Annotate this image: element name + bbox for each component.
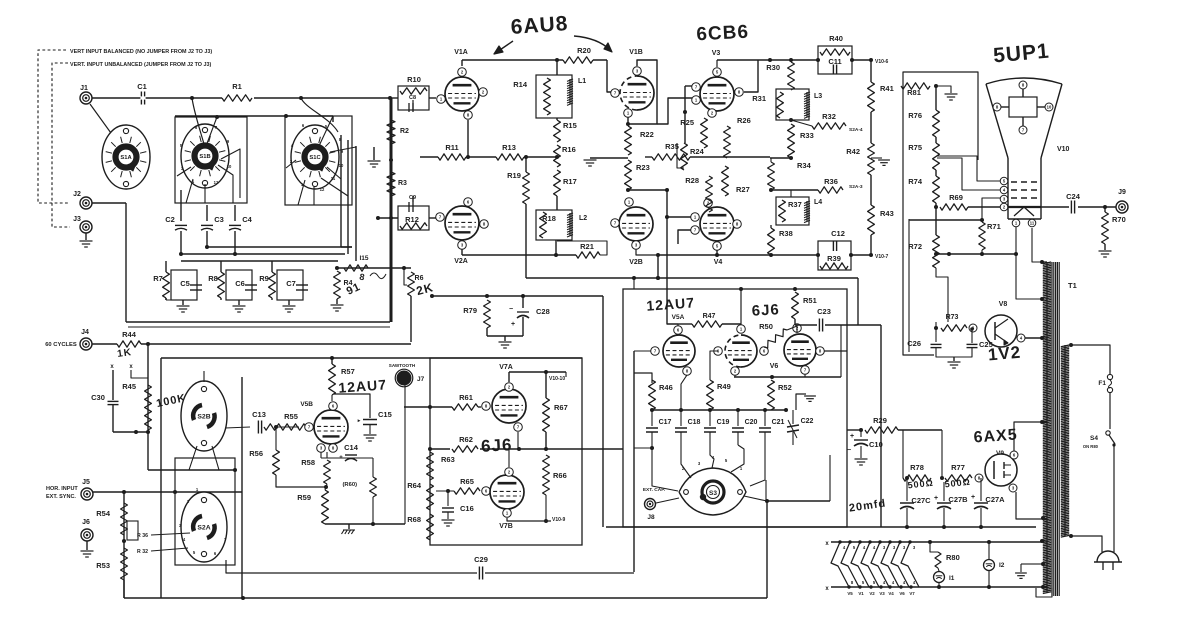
svg-text:S3: S3 xyxy=(709,490,717,497)
svg-text:R62: R62 xyxy=(459,435,473,444)
svg-text:S1A: S1A xyxy=(120,155,132,161)
svg-text:C6: C6 xyxy=(235,279,245,288)
svg-text:S1B: S1B xyxy=(199,154,210,160)
svg-text:+: + xyxy=(511,321,515,328)
svg-text:R51: R51 xyxy=(803,296,817,305)
svg-text:R69: R69 xyxy=(949,193,963,202)
svg-text:V8: V8 xyxy=(999,301,1008,308)
svg-text:C1: C1 xyxy=(137,82,147,91)
svg-text:C19: C19 xyxy=(717,419,730,426)
svg-text:12AU7: 12AU7 xyxy=(646,294,696,313)
svg-text:L4: L4 xyxy=(814,199,822,206)
svg-text:12AU7: 12AU7 xyxy=(338,376,388,395)
svg-text:V7B: V7B xyxy=(499,523,513,530)
svg-text:R61: R61 xyxy=(459,393,473,402)
svg-text:R37: R37 xyxy=(788,200,802,209)
svg-text:R6: R6 xyxy=(415,275,424,282)
svg-text:C3: C3 xyxy=(214,215,224,224)
svg-text:−: − xyxy=(847,447,851,454)
svg-text:R16: R16 xyxy=(562,145,576,154)
svg-text:R80: R80 xyxy=(946,553,960,562)
svg-text:SAWTOOTH: SAWTOOTH xyxy=(389,363,416,368)
svg-text:R77: R77 xyxy=(951,463,965,472)
svg-text:J2: J2 xyxy=(73,191,81,198)
svg-text:R20: R20 xyxy=(577,46,591,55)
svg-text:C30: C30 xyxy=(91,393,105,402)
svg-text:V2A: V2A xyxy=(454,258,468,265)
svg-text:R15: R15 xyxy=(563,121,577,130)
svg-text:EXT. SYNC.: EXT. SYNC. xyxy=(46,494,76,500)
svg-text:C5: C5 xyxy=(180,279,190,288)
svg-text:+: + xyxy=(339,455,343,461)
svg-text:R72: R72 xyxy=(908,242,922,251)
svg-text:R24: R24 xyxy=(690,147,705,156)
svg-text:C27C: C27C xyxy=(911,496,931,505)
svg-text:R59: R59 xyxy=(297,493,311,502)
svg-text:L2: L2 xyxy=(579,215,587,222)
svg-text:(R60): (R60) xyxy=(343,482,358,488)
svg-text:R25: R25 xyxy=(680,118,694,127)
svg-text:R27: R27 xyxy=(736,185,750,194)
svg-text:R34: R34 xyxy=(797,161,812,170)
svg-text:V1: V1 xyxy=(858,591,864,596)
svg-text:R63: R63 xyxy=(441,455,455,464)
svg-text:12: 12 xyxy=(320,187,325,192)
svg-text:R81: R81 xyxy=(907,88,921,97)
svg-text:R42: R42 xyxy=(846,147,860,156)
svg-text:I1: I1 xyxy=(949,575,955,582)
svg-text:V5A: V5A xyxy=(672,314,685,321)
svg-text:R44: R44 xyxy=(122,330,137,339)
svg-text:R22: R22 xyxy=(640,130,654,139)
svg-text:R57: R57 xyxy=(341,367,355,376)
svg-text:J6: J6 xyxy=(82,519,90,526)
svg-text:R9: R9 xyxy=(259,274,269,283)
svg-text:L3: L3 xyxy=(814,93,822,100)
svg-text:R79: R79 xyxy=(463,306,477,315)
svg-text:6CB6: 6CB6 xyxy=(696,22,750,46)
svg-text:J5: J5 xyxy=(82,479,90,486)
svg-text:V3: V3 xyxy=(879,591,885,596)
svg-text:V2B: V2B xyxy=(629,259,643,266)
svg-text:R3: R3 xyxy=(398,180,407,187)
svg-text:C14: C14 xyxy=(344,443,359,452)
svg-text:J1: J1 xyxy=(80,85,88,92)
svg-text:R36: R36 xyxy=(824,177,838,186)
svg-text:1K: 1K xyxy=(117,347,133,360)
svg-text:R47: R47 xyxy=(703,313,716,320)
svg-text:S2A-3: S2A-3 xyxy=(849,184,863,190)
svg-text:C24: C24 xyxy=(1066,192,1081,201)
svg-text:R54: R54 xyxy=(96,509,111,518)
svg-text:C22: C22 xyxy=(801,418,814,425)
svg-text:V1B: V1B xyxy=(629,49,643,56)
svg-text:R26: R26 xyxy=(737,116,751,125)
svg-text:C28: C28 xyxy=(536,307,550,316)
svg-text:R30: R30 xyxy=(766,63,780,72)
svg-text:R65: R65 xyxy=(460,477,474,486)
svg-text:S2B: S2B xyxy=(197,413,210,420)
svg-text:C18: C18 xyxy=(688,419,701,426)
svg-text:C27A: C27A xyxy=(985,495,1005,504)
svg-text:C16: C16 xyxy=(460,504,474,513)
svg-text:VERT INPUT BALANCED (NO JUMPER: VERT INPUT BALANCED (NO JUMPER FROM J2 T… xyxy=(70,49,212,55)
svg-text:J7: J7 xyxy=(417,376,425,383)
svg-text:S2A-4: S2A-4 xyxy=(849,127,863,133)
svg-text:J4: J4 xyxy=(81,329,89,336)
svg-text:V5: V5 xyxy=(847,591,853,596)
svg-text:+: + xyxy=(971,494,975,501)
svg-text:R41: R41 xyxy=(880,84,894,93)
svg-text:C23: C23 xyxy=(817,307,831,316)
svg-text:C26: C26 xyxy=(907,339,921,348)
svg-text:5UP1: 5UP1 xyxy=(992,40,1050,68)
svg-text:V10-6: V10-6 xyxy=(875,59,889,65)
svg-text:R31: R31 xyxy=(752,94,766,103)
svg-text:V4: V4 xyxy=(714,259,723,266)
svg-text:EXT. CAP.: EXT. CAP. xyxy=(643,487,665,493)
svg-text:R17: R17 xyxy=(563,177,577,186)
svg-text:+: + xyxy=(850,433,854,440)
svg-text:F1: F1 xyxy=(1098,380,1106,387)
svg-text:R19: R19 xyxy=(507,171,521,180)
svg-text:R38: R38 xyxy=(779,229,793,238)
svg-text:R58: R58 xyxy=(301,458,315,467)
svg-text:V1A: V1A xyxy=(454,49,468,56)
svg-text:R35: R35 xyxy=(665,142,679,151)
svg-text:C13: C13 xyxy=(252,410,266,419)
svg-text:C25: C25 xyxy=(979,340,993,349)
svg-text:J3: J3 xyxy=(73,216,81,223)
svg-text:10: 10 xyxy=(1047,105,1052,110)
svg-text:R43: R43 xyxy=(880,209,894,218)
svg-text:V2: V2 xyxy=(869,591,875,596)
svg-text:R 36: R 36 xyxy=(137,533,148,539)
svg-text:S1C: S1C xyxy=(309,155,321,161)
svg-text:R13: R13 xyxy=(502,143,516,152)
svg-text:J9: J9 xyxy=(1118,189,1126,196)
svg-text:R74: R74 xyxy=(908,177,923,186)
svg-text:V6: V6 xyxy=(899,591,905,596)
svg-text:C12: C12 xyxy=(831,229,845,238)
svg-text:C4: C4 xyxy=(242,215,252,224)
svg-text:R2: R2 xyxy=(400,128,409,135)
svg-text:V10-10: V10-10 xyxy=(549,376,565,382)
svg-text:R39: R39 xyxy=(827,254,841,263)
svg-text:R10: R10 xyxy=(407,75,421,84)
svg-text:C17: C17 xyxy=(659,419,672,426)
svg-text:R1: R1 xyxy=(232,82,242,91)
svg-text:R55: R55 xyxy=(284,412,298,421)
svg-text:V10: V10 xyxy=(1057,146,1070,153)
svg-text:R70: R70 xyxy=(1112,215,1126,224)
svg-text:R 32: R 32 xyxy=(137,549,148,555)
svg-text:R56: R56 xyxy=(249,449,263,458)
svg-text:R46: R46 xyxy=(659,383,673,392)
svg-text:R68: R68 xyxy=(407,515,421,524)
svg-text:C11: C11 xyxy=(828,57,841,66)
svg-text:10: 10 xyxy=(227,164,232,169)
svg-text:6J6: 6J6 xyxy=(481,435,513,456)
svg-text:R78: R78 xyxy=(910,463,924,472)
svg-text:12: 12 xyxy=(214,180,219,185)
svg-text:C29: C29 xyxy=(474,555,488,564)
svg-text:R7: R7 xyxy=(153,274,163,283)
svg-text:R67: R67 xyxy=(554,403,568,412)
svg-text:C2: C2 xyxy=(165,215,175,224)
svg-text:S2A: S2A xyxy=(197,524,210,531)
svg-text:C7: C7 xyxy=(286,279,296,288)
svg-text:R21: R21 xyxy=(580,242,594,251)
svg-text:HOR. INPUT: HOR. INPUT xyxy=(46,486,78,492)
svg-text:C8: C8 xyxy=(409,95,416,101)
svg-text:V3: V3 xyxy=(712,50,721,57)
svg-text:R11: R11 xyxy=(445,143,458,152)
svg-text:VERT. INPUT UNBALANCED (JUMPE: VERT. INPUT UNBALANCED (JUMPER FROM J2 T… xyxy=(70,62,211,68)
svg-text:−: − xyxy=(509,306,513,313)
svg-text:R76: R76 xyxy=(908,111,922,120)
svg-text:6AX5: 6AX5 xyxy=(973,426,1018,446)
svg-text:R73: R73 xyxy=(946,314,959,321)
svg-text:R29: R29 xyxy=(873,416,887,425)
svg-text:R45: R45 xyxy=(122,382,136,391)
svg-text:6J6: 6J6 xyxy=(751,301,780,319)
svg-text:V6: V6 xyxy=(770,363,779,370)
svg-text:R53: R53 xyxy=(96,561,110,570)
svg-text:R52: R52 xyxy=(778,383,792,392)
svg-text:R14: R14 xyxy=(513,80,528,89)
svg-text:+: + xyxy=(934,495,938,502)
svg-text:I15: I15 xyxy=(359,255,368,262)
svg-text:V7A: V7A xyxy=(499,364,513,371)
svg-text:R64: R64 xyxy=(407,481,422,490)
svg-text:R71: R71 xyxy=(987,222,1001,231)
svg-text:R23: R23 xyxy=(636,163,650,172)
svg-text:11: 11 xyxy=(1030,221,1035,226)
svg-text:I2: I2 xyxy=(999,562,1005,569)
svg-text:R50: R50 xyxy=(759,322,773,331)
svg-text:V7: V7 xyxy=(909,591,915,596)
svg-text:C20: C20 xyxy=(745,419,758,426)
svg-text:L1: L1 xyxy=(578,78,586,85)
svg-text:T1: T1 xyxy=(1068,281,1077,290)
svg-text:C21: C21 xyxy=(772,419,785,426)
svg-text:R8: R8 xyxy=(208,274,218,283)
svg-text:R66: R66 xyxy=(553,471,567,480)
svg-text:V10-9: V10-9 xyxy=(552,517,566,523)
svg-text:J8: J8 xyxy=(647,514,655,521)
svg-text:S4: S4 xyxy=(1090,435,1098,442)
svg-text:ON R80: ON R80 xyxy=(1083,444,1099,449)
svg-text:R40: R40 xyxy=(829,34,843,43)
svg-text:V5B: V5B xyxy=(300,401,313,408)
svg-text:V10-7: V10-7 xyxy=(875,254,889,260)
svg-text:11: 11 xyxy=(331,176,336,181)
svg-text:V4: V4 xyxy=(888,591,894,596)
svg-text:R33: R33 xyxy=(800,131,814,140)
svg-text:C15: C15 xyxy=(378,410,392,419)
svg-text:R28: R28 xyxy=(685,176,699,185)
svg-text:R32: R32 xyxy=(822,112,836,121)
svg-text:▸: ▸ xyxy=(357,418,361,424)
svg-text:6AU8: 6AU8 xyxy=(510,12,569,39)
svg-text:R49: R49 xyxy=(717,382,731,391)
svg-text:60 CYCLES: 60 CYCLES xyxy=(45,342,77,348)
svg-text:R75: R75 xyxy=(908,143,922,152)
svg-text:C27B: C27B xyxy=(948,495,968,504)
